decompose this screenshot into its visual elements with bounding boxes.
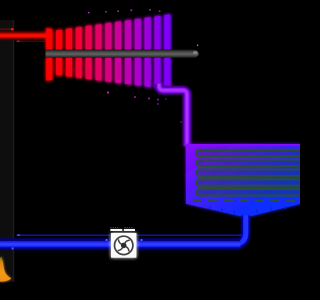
feedwater return pipe (cold) xyxy=(17,235,243,236)
shaft S1 xyxy=(46,45,199,58)
boiler water level line xyxy=(0,28,14,31)
turbine T1 blades lower band xyxy=(46,58,170,90)
exhaust pipe (turbine to condenser) xyxy=(159,84,187,146)
condenser top edge highlight xyxy=(186,144,301,146)
condenser cooling coil xyxy=(193,150,307,201)
pump impeller symbol xyxy=(115,236,133,254)
pump P1 box xyxy=(111,233,136,258)
sparkle dots xyxy=(88,9,182,123)
boiler B1 xyxy=(0,20,14,282)
pump label bars xyxy=(110,229,122,231)
pipe glow dots xyxy=(11,247,13,249)
turbine T1 blades upper band xyxy=(46,14,170,50)
condensate droplets xyxy=(209,206,286,214)
thin red line below pipe xyxy=(17,41,47,42)
condenser C1 body with funnel xyxy=(186,144,301,217)
burner flame F1 xyxy=(0,257,11,282)
steam pipe (boiler to turbine, hot) xyxy=(0,32,52,40)
condenser outlet pipe and elbow xyxy=(231,216,246,244)
